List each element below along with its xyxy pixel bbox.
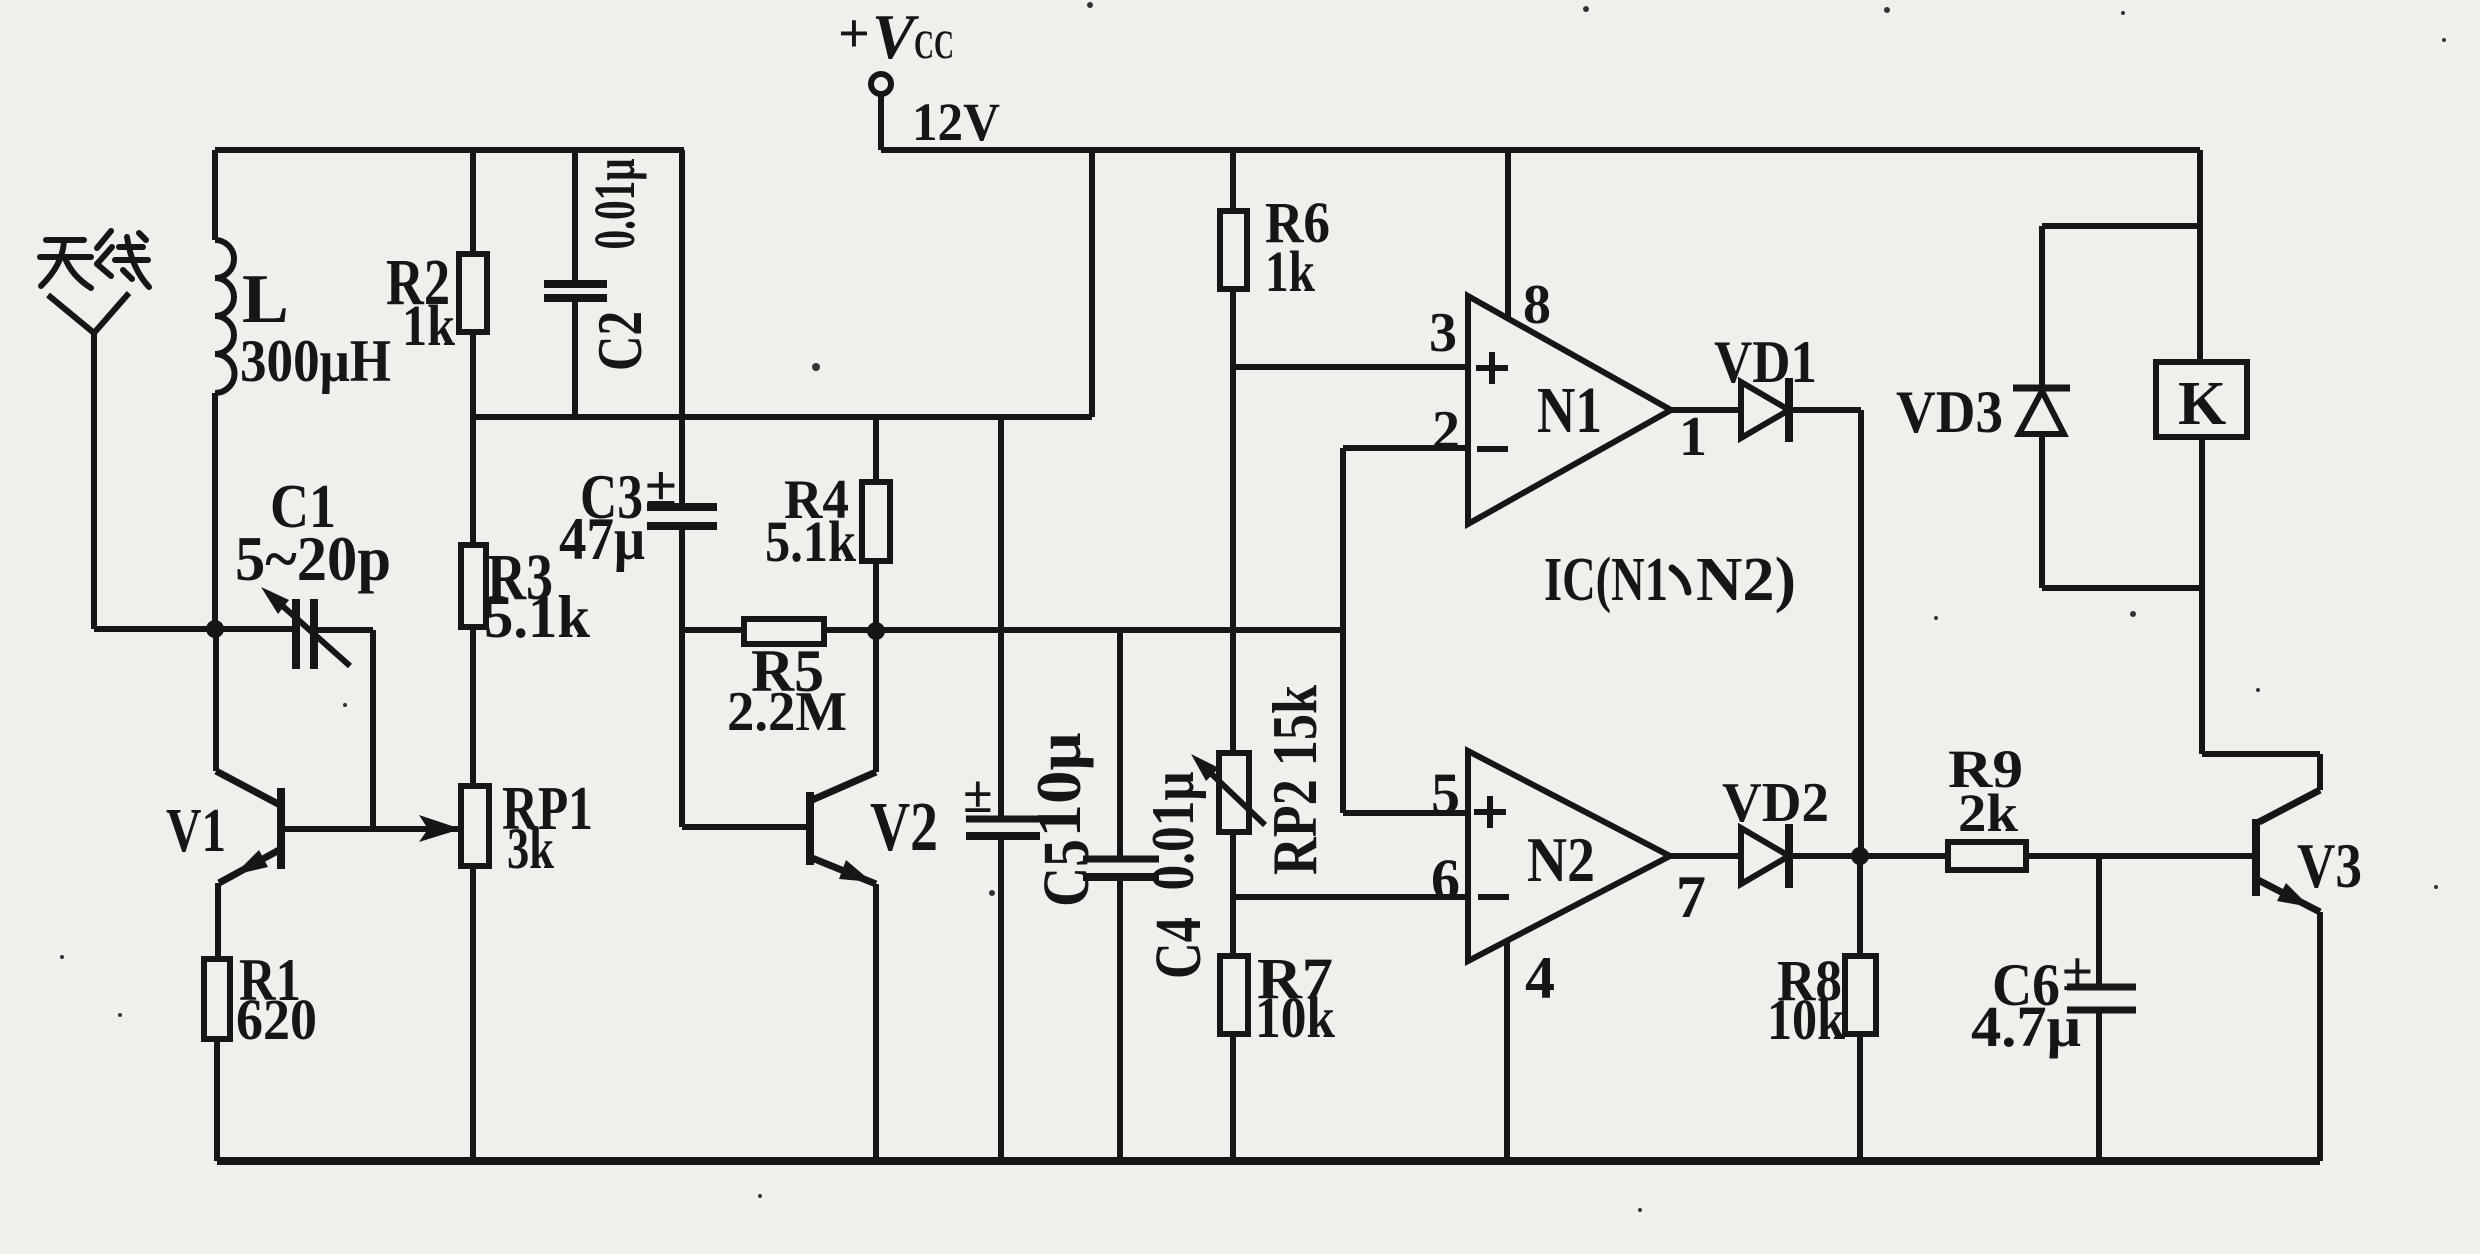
svg-text:7: 7 (1676, 864, 1706, 930)
svg-text:VD3: VD3 (1896, 379, 2003, 445)
svg-text:C2: C2 (584, 311, 655, 371)
svg-text:C5: C5 (1030, 839, 1103, 907)
svg-text:300μH: 300μH (240, 328, 391, 394)
svg-text:V: V (872, 1, 920, 72)
svg-text:2k: 2k (1958, 783, 2018, 843)
svg-text:3: 3 (1429, 302, 1457, 364)
svg-text:3k: 3k (507, 816, 555, 881)
svg-text:5.1k: 5.1k (484, 584, 591, 650)
svg-text:K: K (2178, 370, 2226, 438)
svg-text:10μ: 10μ (1023, 733, 1094, 838)
svg-text:N2): N2) (1696, 546, 1796, 614)
svg-text:47μ: 47μ (559, 506, 645, 572)
svg-text:IC(N1: IC(N1 (1544, 546, 1668, 614)
svg-text:1: 1 (1679, 406, 1707, 468)
svg-text:0.01μ: 0.01μ (582, 158, 647, 249)
svg-text:CC: CC (914, 22, 954, 67)
svg-text:10k: 10k (1255, 985, 1336, 1050)
svg-text:RP2 15k: RP2 15k (1259, 685, 1330, 875)
svg-text:1k: 1k (1265, 239, 1316, 304)
svg-text:V1: V1 (166, 797, 226, 865)
svg-text:12V: 12V (912, 92, 1000, 152)
svg-text:2.2M: 2.2M (727, 681, 847, 743)
svg-text:1k: 1k (402, 293, 456, 358)
svg-text:620: 620 (236, 987, 317, 1052)
svg-text:6: 6 (1431, 847, 1460, 912)
svg-text:V2: V2 (870, 789, 938, 866)
svg-text:V3: V3 (2297, 830, 2362, 901)
svg-text:C4: C4 (1142, 917, 1215, 979)
svg-text:4.7μ: 4.7μ (1971, 994, 2081, 1059)
svg-text:VD2: VD2 (1722, 772, 1829, 834)
svg-text:L: L (242, 261, 289, 338)
svg-text:5: 5 (1431, 761, 1460, 826)
svg-text:N2: N2 (1527, 824, 1595, 895)
svg-text:10k: 10k (1767, 987, 1846, 1052)
svg-text:8: 8 (1523, 274, 1551, 336)
svg-text:N1: N1 (1537, 374, 1602, 447)
svg-text:±: ± (963, 764, 993, 824)
svg-text:VD1: VD1 (1714, 329, 1817, 395)
svg-text:0.01μ: 0.01μ (1140, 772, 1206, 891)
svg-text:5~20p: 5~20p (235, 523, 391, 594)
svg-text:2: 2 (1432, 400, 1460, 462)
svg-text:4: 4 (1525, 945, 1555, 1011)
svg-text:+: + (838, 3, 870, 65)
svg-text:5.1k: 5.1k (765, 509, 857, 574)
svg-text:±: ± (645, 453, 677, 518)
